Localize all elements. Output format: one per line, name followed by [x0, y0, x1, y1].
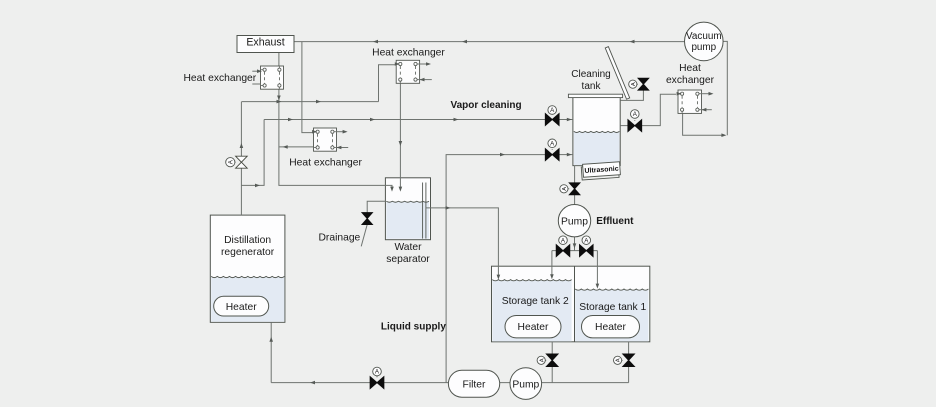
svg-text:Heat exchanger: Heat exchanger: [372, 47, 445, 58]
wire line B into cleaning tank: [559, 118, 573, 122]
heater (storage tank 2): [505, 316, 561, 338]
label storage tank 1: [579, 302, 646, 313]
label drainage: [319, 233, 361, 244]
heat exchanger HX3: [314, 128, 337, 151]
pump (circulation): [510, 368, 542, 400]
distillation regenerator tank: [210, 215, 285, 322]
label cleaning tank: [571, 69, 610, 92]
wire HX2 coolant stubs: [395, 62, 432, 81]
actuator A (V10): [373, 367, 382, 377]
valve V3 (cleaning tank to HX4): [628, 120, 642, 132]
wire vacuum pump discharge: [723, 41, 728, 135]
svg-text:Cleaning: Cleaning: [571, 69, 610, 80]
heat exchanger HX1: [261, 66, 284, 89]
wire line A distillation vapor: [242, 100, 379, 104]
actuator A (distillation vapor valve): [226, 158, 236, 167]
svg-text:pump: pump: [691, 42, 716, 53]
label water separator: [386, 242, 430, 265]
valve V8 (storage tank 2 outlet): [546, 354, 558, 367]
svg-text:Storage tank 1: Storage tank 1: [579, 302, 646, 313]
wire V2 to cleaning tank: [559, 153, 573, 157]
svg-text:Distillation: Distillation: [224, 235, 271, 246]
actuator A (V7): [582, 236, 591, 245]
wire storage tank 1 outlet: [628, 342, 630, 383]
svg-text:Heater: Heater: [518, 322, 549, 333]
valve V6 (feed to storage tank 2): [556, 245, 570, 257]
wire liquid supply riser: [446, 153, 546, 383]
wire riser to line A with white valve: [240, 102, 244, 157]
label liquid supply: [381, 321, 446, 332]
svg-text:Liquid supply: Liquid supply: [381, 321, 446, 332]
wire cleaning tank vent to valve V4: [620, 90, 643, 100]
svg-text:Exhaust: Exhaust: [246, 36, 284, 48]
cleaning tank lid: [605, 47, 629, 100]
svg-text:Filter: Filter: [463, 380, 486, 391]
actuator A (V6): [559, 236, 568, 245]
wire branch to heat exchanger HX3: [302, 42, 313, 133]
actuator A (V5): [560, 185, 569, 193]
label heat exchanger HX2: [372, 47, 445, 58]
wire drain outlet: [361, 225, 367, 247]
svg-text:Heater: Heater: [226, 302, 257, 313]
heat exchanger HX4: [678, 90, 702, 113]
exhaust box: [237, 36, 294, 53]
svg-text:Heat: Heat: [679, 63, 701, 74]
svg-text:Pump: Pump: [561, 216, 588, 227]
heater (storage tank 1): [582, 316, 640, 338]
wire junction to line B: [241, 120, 264, 188]
label distillation regenerator: [221, 235, 275, 258]
svg-text:tank: tank: [582, 81, 602, 92]
wire effluent pump to tank feed line: [573, 237, 577, 251]
wire separator drain to valve: [367, 201, 386, 213]
label heat exchanger HX4: [666, 63, 715, 86]
filter: [448, 370, 499, 397]
svg-text:A: A: [616, 358, 622, 362]
label effluent: [596, 216, 634, 227]
valve V2 (liquid supply to cleaning tank): [545, 149, 559, 161]
actuator A (V1): [548, 106, 557, 115]
wire exhaust header: [294, 40, 684, 44]
svg-text:exchanger: exchanger: [666, 75, 715, 86]
wire HX2 outlet to water separator: [399, 83, 403, 191]
wire HX4 coolant stubs: [677, 92, 714, 112]
wire bottom return line: [271, 381, 628, 385]
vacuum pump: [685, 22, 724, 61]
wire HX4 outlet to vacuum pump line: [683, 113, 727, 137]
heater (distillation regenerator): [214, 296, 269, 316]
valve (distillation vapor, manual): [236, 156, 248, 168]
ultrasonic transducer: [581, 162, 620, 180]
label storage tank 2: [502, 296, 569, 307]
valve V10 (return line): [370, 377, 384, 389]
label heat exchanger HX3: [289, 158, 362, 169]
wire cleaning tank to valve V3: [620, 125, 628, 127]
wire white valve to distillation tank: [240, 168, 242, 215]
wire exhaust box to water separator: [277, 53, 394, 192]
svg-text:separator: separator: [386, 254, 430, 265]
wire separator outlet to storage tank 2: [426, 206, 500, 280]
pump (effluent): [558, 205, 590, 237]
svg-text:A: A: [539, 358, 545, 362]
label vapor cleaning: [451, 100, 522, 111]
heat exchanger HX2: [396, 60, 419, 83]
svg-text:Drainage: Drainage: [319, 233, 361, 244]
valve V7 (feed to storage tank 1): [580, 245, 594, 257]
cleaning tank rim: [568, 94, 622, 97]
svg-text:Pump: Pump: [512, 379, 539, 390]
actuator A (V3): [631, 110, 640, 121]
svg-text:Vapor cleaning: Vapor cleaning: [451, 100, 522, 111]
wire V3 to HX4 inlet: [641, 94, 676, 125]
actuator A (V2): [548, 139, 557, 150]
wire valve V5 to effluent pump: [574, 195, 576, 205]
wire feed into storage tank 1: [596, 251, 600, 289]
wire cleaning tank drain to pump: [574, 166, 576, 183]
storage tanks: [492, 266, 650, 342]
cleaning tank: [573, 98, 620, 166]
wire HX1 coolant stubs: [252, 69, 262, 84]
wire storage feed line: [552, 250, 598, 252]
svg-text:Heat exchanger: Heat exchanger: [289, 158, 362, 169]
svg-text:A: A: [562, 187, 568, 191]
water separator tank: [385, 178, 430, 240]
wire HX3 outlet to separator feed: [279, 145, 314, 149]
valve (separator drain): [362, 213, 373, 225]
actuator A (V8): [537, 356, 546, 364]
svg-text:Heater: Heater: [595, 322, 626, 333]
svg-text:A: A: [631, 82, 637, 86]
svg-text:Water: Water: [394, 242, 422, 253]
svg-text:Storage tank 2: Storage tank 2: [502, 296, 569, 307]
wire line A to HX2 inlet: [379, 65, 397, 102]
svg-text:Effluent: Effluent: [596, 216, 634, 227]
wire feed into storage tank 2: [550, 251, 554, 280]
valve V1 (vapor to cleaning tank): [545, 114, 559, 126]
actuator A (V4): [629, 80, 638, 88]
wire HX3 coolant stubs: [312, 130, 348, 149]
svg-text:Vacuum: Vacuum: [686, 31, 722, 42]
svg-text:Heat exchanger: Heat exchanger: [184, 73, 257, 84]
label heat exchanger HX1: [184, 73, 257, 84]
svg-text:regenerator: regenerator: [221, 247, 275, 258]
wire storage tank 2 outlet: [551, 342, 553, 383]
valve V9 (storage tank 1 outlet): [623, 354, 635, 367]
actuator A (V9): [614, 356, 623, 364]
wire line B vapor cleaning: [264, 118, 546, 122]
valve V5 (cleaning tank drain): [569, 183, 580, 195]
wire distillation return riser: [269, 322, 273, 382]
valve V4 (vent valve): [638, 78, 649, 90]
